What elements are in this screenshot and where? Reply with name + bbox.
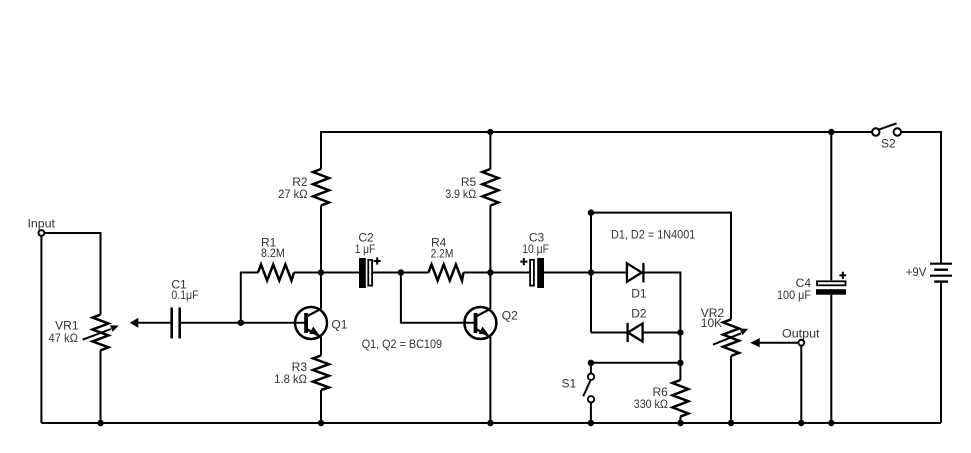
wire Q1 emitter to R3 (320, 337, 322, 356)
node top rail C4 (828, 129, 834, 135)
wire R1 right to node (294, 272, 321, 274)
wire top rail right of S2 (901, 131, 941, 133)
svg-text:D2: D2 (631, 306, 647, 320)
svg-text:1.8 kΩ: 1.8 kΩ (274, 372, 307, 386)
wire C2 to R4 (373, 272, 429, 274)
switch S1 (562, 374, 595, 403)
node S1 top (588, 360, 594, 366)
diode D2 (628, 306, 647, 342)
svg-text:+9V: +9V (906, 265, 927, 279)
wire S1 bottom lead (590, 403, 592, 424)
capacitor C1 (171, 277, 198, 338)
wire VR2 bottom lead (730, 356, 732, 423)
wire VR1 bottom lead (100, 350, 102, 423)
svg-text:47 kΩ: 47 kΩ (49, 331, 79, 345)
wire diode box left vertical (590, 213, 592, 333)
node bottom rail R3 (318, 420, 324, 426)
svg-text:8.2M: 8.2M (261, 246, 285, 260)
wire R6 top lead (679, 333, 681, 381)
node bottom rail VR1 (97, 420, 103, 426)
svg-text:Output: Output (782, 327, 820, 341)
wire R4 to R5 node (464, 272, 491, 274)
wire R5 top lead (489, 132, 491, 169)
potentiometer VR1 (49, 315, 119, 351)
wire C3 to D1 node (543, 272, 627, 274)
resistor R3 (274, 356, 329, 391)
terminal input (28, 217, 56, 236)
battery +9V (906, 264, 952, 282)
wire R2 top lead (320, 131, 322, 169)
node main row C2/R4 (398, 269, 404, 275)
wire C4 bottom lead (830, 295, 832, 423)
svg-text:Q2: Q2 (502, 308, 518, 322)
node D2 right (677, 329, 683, 335)
node bottom rail VR2 (728, 420, 734, 426)
wire top rail (321, 131, 872, 133)
wire input drop left side (40, 236, 42, 424)
svg-text:Q1, Q2 = BC109: Q1, Q2 = BC109 (362, 337, 443, 351)
wire right side down to battery (940, 131, 942, 263)
transistor Q2 (464, 307, 518, 339)
wire C1 right to Q1 base (181, 322, 305, 324)
node bottom rail C4 (828, 420, 834, 426)
node bottom rail Q2 (487, 420, 493, 426)
wire Q2 collector (489, 273, 491, 309)
svg-text:27 kΩ: 27 kΩ (278, 187, 308, 201)
node bottom rail R6 (677, 420, 683, 426)
svg-text:2.2M: 2.2M (431, 247, 454, 261)
wire R1 left drop (241, 273, 258, 323)
wire main row node to C2 (321, 272, 359, 274)
svg-text:10 μF: 10 μF (522, 242, 549, 256)
svg-text:D1, D2 = 1N4001: D1, D2 = 1N4001 (611, 228, 696, 242)
wire R3 bottom lead (320, 390, 322, 423)
wire S1 top lead (590, 363, 592, 374)
node main row R5 (487, 269, 493, 275)
svg-text:10K: 10K (701, 316, 722, 330)
arrow from VR1 wiper to C1 (130, 318, 139, 328)
diode D1 (627, 263, 647, 301)
wire C4 top lead (830, 132, 832, 280)
node Q1 base (238, 320, 244, 326)
resistor R1 (258, 236, 294, 281)
svg-text:1 μF: 1 μF (355, 242, 376, 256)
resistor R2 (278, 169, 329, 206)
switch S2 (872, 123, 901, 150)
capacitor C2 (355, 230, 381, 288)
wire D1 to right corner and down (643, 273, 680, 333)
node top rail R5 (487, 129, 493, 135)
transistor Q1 (295, 307, 348, 339)
resistor R4 (429, 236, 464, 281)
wire node to C3 (490, 272, 529, 274)
wire R2 bottom lead (320, 206, 322, 273)
potentiometer VR2 (701, 306, 749, 356)
node main row R2 (318, 269, 324, 275)
node bottom rail output (798, 420, 804, 426)
terminal output (782, 327, 820, 346)
svg-text:100 μF: 100 μF (777, 288, 811, 302)
wire output drop (800, 346, 802, 423)
wire diode box top to VR2 (591, 213, 731, 320)
resistor R6 (634, 380, 689, 417)
capacitor C3 (520, 230, 549, 288)
wire R5 bottom lead (489, 206, 491, 273)
svg-text:S1: S1 (562, 377, 577, 391)
node diode box top left (588, 209, 594, 215)
wire Q2 emitter (489, 337, 491, 423)
node R6 top (677, 360, 683, 366)
capacitor C4 (777, 272, 846, 302)
svg-text:D1: D1 (631, 287, 647, 301)
wire S1 top row (591, 362, 681, 364)
svg-text:Input: Input (28, 217, 56, 231)
arrow output to VR2 wiper (750, 338, 798, 347)
wire Q2 base drop (401, 273, 475, 323)
wire C1 to base node (136, 322, 171, 324)
wire Q1 collector (320, 273, 322, 309)
wire battery bottom to bottom rail (940, 282, 942, 423)
svg-text:0.1μF: 0.1μF (171, 288, 198, 302)
wire bottom rail (41, 422, 941, 424)
svg-text:S2: S2 (881, 136, 896, 150)
svg-text:330 kΩ: 330 kΩ (634, 397, 668, 411)
wire D2 row (591, 332, 680, 334)
resistor R5 (445, 169, 498, 206)
node bottom rail S1 (588, 420, 594, 426)
wire R6 bottom lead (679, 417, 681, 423)
wire input to VR1 top (44, 233, 101, 315)
svg-text:3.9 kΩ: 3.9 kΩ (445, 187, 476, 201)
node main row C3/D1 (588, 269, 594, 275)
svg-text:Q1: Q1 (331, 318, 347, 332)
